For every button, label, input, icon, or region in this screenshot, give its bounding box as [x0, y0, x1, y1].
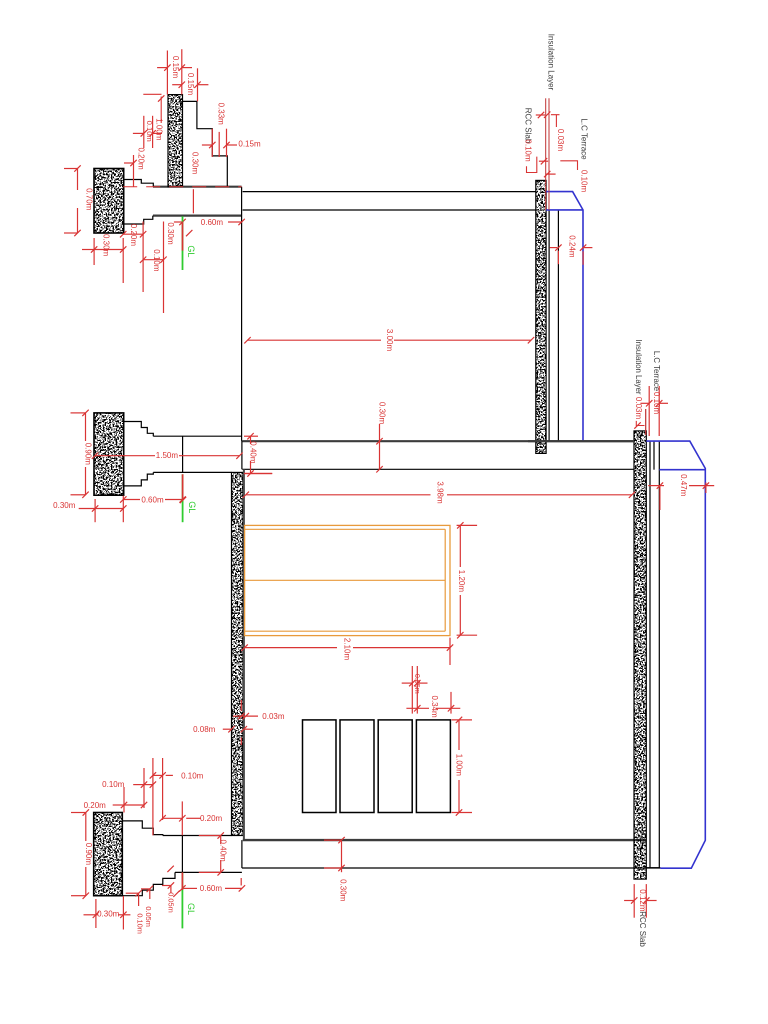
- dim 0.30m upper slab: [376, 402, 386, 473]
- dim 0.05m step bl1: [126, 890, 154, 927]
- dim 2.10m window width: [241, 638, 453, 665]
- slab: upper floor slab left edge: [241, 441, 243, 469]
- wall: upper terrace parapet finish line 1: [548, 210, 550, 441]
- dim 0.60m mid: [120, 495, 186, 504]
- svg-text:0.34m: 0.34m: [430, 695, 439, 718]
- dim 0.10m terrace lower: [640, 386, 668, 436]
- slab: upper terrace RCC slab bottom line: [243, 209, 536, 211]
- dim 0.20m step bl: [84, 787, 148, 813]
- label Insulation Layer upper: [546, 34, 555, 91]
- svg-text:0.60m: 0.60m: [200, 884, 223, 893]
- vent grill slot 4: [416, 720, 450, 813]
- ground level GL3 label: [167, 866, 195, 915]
- dim 3.00m storey height: [244, 329, 534, 352]
- svg-text:2.10m: 2.10m: [343, 638, 352, 661]
- leader RCC slab upper: [527, 112, 549, 173]
- dim 0.40m plinth upper: [244, 433, 272, 477]
- vent grill slot 1: [303, 720, 337, 813]
- dim 0.10m parapet: [133, 116, 162, 148]
- dim 0.03m insulation upper: [544, 112, 565, 152]
- wall: bottom-left footing upper steps: [122, 821, 163, 836]
- dim 0.60m plinth width top: [174, 218, 245, 227]
- svg-text:1.00m: 1.00m: [155, 118, 164, 141]
- svg-text:3.98m: 3.98m: [435, 481, 444, 504]
- svg-text:0.30m: 0.30m: [53, 501, 76, 510]
- dim 0.47m terrace ledge: [648, 474, 714, 510]
- svg-text:0.30m: 0.30m: [97, 910, 120, 919]
- dim 0.10m terrace upper: [544, 161, 588, 193]
- label LC Terrace lower: [652, 351, 661, 415]
- dim 0.30m wall width label: [191, 152, 200, 213]
- parapet: upper terrace blue floor line: [546, 209, 583, 211]
- svg-text:GL: GL: [186, 245, 196, 257]
- svg-text:0.20m: 0.20m: [200, 814, 223, 823]
- wall: upper terrace parapet finish line 2: [557, 210, 559, 441]
- svg-text:1.00m: 1.00m: [455, 754, 464, 777]
- dim 0.08m wall: [193, 725, 253, 734]
- svg-text:1.50m: 1.50m: [156, 451, 179, 460]
- dim 0.10m step bl left: [102, 768, 156, 808]
- svg-text:0.10m: 0.10m: [181, 771, 204, 780]
- svg-text:Insulation Layer: Insulation Layer: [634, 339, 643, 394]
- dim 0.15m coping step: [202, 129, 261, 157]
- svg-text:0.30m: 0.30m: [339, 879, 348, 902]
- svg-text:0.03m: 0.03m: [262, 712, 285, 721]
- dim 0.03m wall finish: [233, 700, 285, 745]
- dim 0.05m grill gap: [402, 666, 428, 714]
- ground level GL2 label: [180, 497, 197, 513]
- svg-text:0.10m: 0.10m: [579, 170, 588, 193]
- svg-text:0.20m: 0.20m: [129, 224, 138, 247]
- slab: upper terrace RCC slab top line: [243, 191, 536, 193]
- svg-text:0.03m: 0.03m: [634, 397, 643, 420]
- svg-text:0.20m: 0.20m: [137, 147, 146, 170]
- svg-text:0.10m: 0.10m: [152, 249, 161, 272]
- svg-text:L.C Terrace: L.C Terrace: [652, 351, 661, 391]
- dim 0.15m coping first: [157, 49, 192, 94]
- dim 0.12m RCC slab: [624, 884, 657, 918]
- ground level GL1 label: [186, 245, 196, 257]
- parapet: lower terrace blue coping outline: [646, 441, 705, 868]
- svg-text:0.70m: 0.70m: [84, 188, 93, 211]
- wall: parapet coping hatched strip: [168, 95, 183, 187]
- wall: lower terrace parapet finish line 1: [649, 441, 651, 868]
- leader insulation lower: [634, 421, 644, 429]
- svg-text:0.03m: 0.03m: [556, 129, 565, 152]
- wall: bottom-left footing lower steps: [122, 872, 175, 895]
- window W1 middle rail: [245, 579, 446, 581]
- slab: ground floor line right of wall: [646, 867, 660, 869]
- dim 0.90m footing height: [71, 410, 93, 498]
- slab: first floor top line: [153, 435, 241, 437]
- svg-text:0.33m: 0.33m: [216, 103, 225, 126]
- svg-text:0.10m: 0.10m: [102, 780, 125, 789]
- svg-text:0.30m: 0.30m: [377, 402, 386, 425]
- wall: lower terrace floor edge line: [653, 441, 655, 470]
- svg-text:0.12m: 0.12m: [638, 889, 647, 912]
- dim 0.20m wall bl: [159, 801, 222, 835]
- wall: mid-left footing lower steps: [124, 472, 154, 486]
- dim 0.24m parapet: [550, 235, 593, 265]
- dim 0.60m plinth bl: [179, 878, 245, 893]
- svg-text:0.47m: 0.47m: [679, 474, 688, 497]
- dim 0.10m step: [140, 222, 167, 314]
- dim 1.20m window height: [457, 522, 478, 638]
- svg-text:1.20m: 1.20m: [457, 570, 466, 593]
- wall: bottom-left wall face above GL: [181, 836, 183, 873]
- wall: mid-left footing upper steps: [124, 422, 154, 437]
- slab: ground floor bottom line: [242, 867, 660, 869]
- wall: upper terrace parapet hatched wall: [536, 180, 546, 453]
- dim line overlay on parapet top: [123, 186, 241, 188]
- svg-text:0.60m: 0.60m: [141, 495, 164, 504]
- svg-text:0.15m: 0.15m: [186, 73, 195, 96]
- dim 0.20m parapet: [124, 147, 146, 187]
- dim 0.30m mid footing: [53, 496, 126, 523]
- dim 0.90m footing bl: [71, 809, 93, 899]
- dim 0.70m footing height: [64, 165, 93, 236]
- slab: plinth top line left of wall: [163, 835, 232, 837]
- dim 0.10m step bl3: [135, 913, 144, 934]
- svg-text:Insulation Layer: Insulation Layer: [546, 34, 555, 91]
- wall: lower terrace parapet hatched wall: [634, 431, 646, 879]
- svg-text:0.05m: 0.05m: [144, 906, 153, 927]
- dim 0.05m step bl2: [141, 882, 176, 912]
- ground level GL1 line: [182, 216, 184, 270]
- slab: upper floor slab bottom line: [242, 468, 634, 470]
- wall: ground storey left wall plaster line: [243, 469, 245, 840]
- svg-text:0.60m: 0.60m: [201, 218, 224, 227]
- svg-text:0.30m: 0.30m: [166, 222, 175, 245]
- svg-text:0.30m: 0.30m: [101, 234, 110, 257]
- dim 0.30m footing bl: [84, 896, 131, 930]
- svg-text:RCC Slab: RCC Slab: [638, 911, 647, 947]
- dim 0.30m footing width: [82, 234, 126, 283]
- vent grill slot 2: [340, 720, 374, 813]
- svg-text:3.00m: 3.00m: [385, 329, 394, 352]
- dim 0.10m step bl right: [150, 758, 204, 835]
- label RCC Slab lower: [638, 911, 647, 947]
- svg-text:0.40m: 0.40m: [248, 441, 257, 464]
- ground level GL2 line: [182, 474, 184, 522]
- footing: bottom-left footing block: [94, 813, 123, 896]
- wall: terrace parapet slab top edge: [153, 186, 242, 188]
- dim 3.98m storey height lower: [243, 474, 636, 504]
- vent grill slot 3: [378, 720, 412, 813]
- svg-text:0.05m: 0.05m: [413, 674, 422, 694]
- svg-text:0.10m: 0.10m: [135, 913, 144, 934]
- slab: first floor bottom line left part: [153, 471, 231, 473]
- window W1 inner frame right: [444, 529, 446, 631]
- slab: plinth bottom line: [175, 871, 242, 873]
- svg-text:0.20m: 0.20m: [84, 801, 107, 810]
- wall: top-left footing lower steps: [124, 216, 153, 224]
- svg-text:L.C Terrace: L.C Terrace: [579, 118, 588, 160]
- wall: lower terrace parapet finish line 2: [658, 441, 660, 868]
- svg-text:0.90m: 0.90m: [84, 443, 93, 466]
- dim 0.20m step: [120, 222, 146, 293]
- svg-text:0.15m: 0.15m: [238, 140, 261, 149]
- svg-text:GL: GL: [187, 501, 197, 513]
- dim 0.30m plinth: [166, 222, 193, 245]
- svg-text:0.10m: 0.10m: [523, 139, 532, 162]
- svg-text:0.08m: 0.08m: [193, 725, 216, 734]
- window W1 inner frame top: [245, 528, 446, 530]
- footing: top-left footing block: [94, 169, 124, 234]
- dim 1.00m grill height: [452, 717, 473, 816]
- insulation layer red lines upper: [546, 98, 549, 210]
- parapet: lower terrace blue floor line: [659, 469, 705, 471]
- label Insulation Layer lower: [634, 339, 643, 419]
- dim 0.15m coping second: [172, 68, 208, 101]
- slab: ground floor top line: [243, 839, 647, 841]
- svg-text:0.10m: 0.10m: [145, 121, 154, 142]
- svg-text:0.40m: 0.40m: [218, 839, 227, 862]
- wall: terrace parapet slab bottom edge: [153, 215, 242, 217]
- svg-text:0.30m: 0.30m: [191, 152, 200, 175]
- svg-text:0.15m: 0.15m: [171, 56, 180, 79]
- wall: parapet coping step profile: [183, 101, 228, 186]
- window W1 outer frame: [245, 525, 450, 635]
- dim 0.33m coping height: [216, 103, 225, 126]
- parapet: upper terrace blue coping outline: [546, 192, 583, 442]
- label RCC Slab 0.10m upper: [523, 108, 532, 162]
- slab: ground floor left edge: [241, 840, 243, 868]
- footing: mid-left footing block: [94, 413, 124, 495]
- insulation layer red line lower: [645, 409, 647, 435]
- dim 1.50m: [92, 451, 243, 460]
- ground level GL3 line: [181, 872, 183, 928]
- dim 0.34m grill slot: [406, 692, 460, 718]
- dim 0.40m plinth bl: [199, 832, 228, 875]
- svg-text:0.24m: 0.24m: [568, 235, 577, 258]
- label LC Terrace upper: [579, 118, 588, 160]
- wall: upper storey left wall outer face: [241, 187, 243, 442]
- wall: mid-left wall face above GL: [182, 436, 184, 472]
- dim 0.30m ground slab: [324, 837, 348, 902]
- wall: ground storey left wall hatched strip: [232, 472, 244, 835]
- svg-text:0.90m: 0.90m: [84, 843, 93, 866]
- dim 1.00m parapet height leader: [143, 94, 164, 140]
- wall: top-left footing upper steps: [124, 180, 154, 187]
- svg-text:GL: GL: [186, 903, 196, 915]
- slab: upper floor slab top line: [242, 440, 634, 442]
- window W1 inner frame bottom: [245, 630, 446, 632]
- slab: upper floor slab line over parapet wall: [528, 440, 634, 442]
